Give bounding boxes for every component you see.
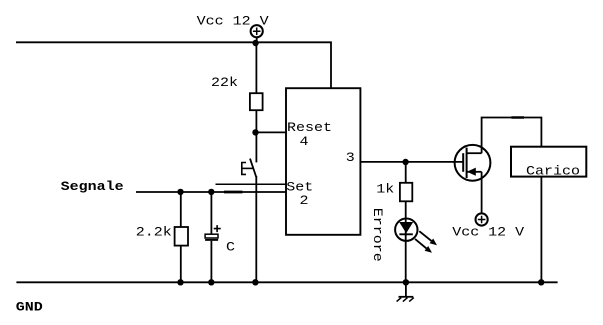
svg-text:3: 3 bbox=[346, 151, 355, 166]
wire output node to R3 bbox=[405, 162, 407, 183]
svg-text:2.2k: 2.2k bbox=[136, 225, 172, 240]
resistor R1 22k bbox=[250, 93, 263, 110]
svg-text:Set: Set bbox=[286, 181, 313, 196]
node junction rail C bbox=[208, 279, 214, 285]
svg-text:1k: 1k bbox=[376, 182, 394, 197]
wire Segnale node to capacitor bbox=[210, 192, 212, 234]
wire Q1 drain to Carico bbox=[482, 118, 542, 154]
wire Q1 source down bbox=[481, 172, 483, 214]
LED light arrow 2 bbox=[415, 239, 432, 253]
svg-text:4: 4 bbox=[300, 135, 309, 150]
wire overlap thick segment top bbox=[512, 116, 525, 119]
wire R3 to LED bbox=[405, 201, 407, 218]
pushbutton switch S1 bbox=[242, 159, 257, 178]
node junction Segnale C bbox=[208, 189, 214, 195]
wire Carico to ground rail bbox=[540, 177, 542, 283]
LED D1 bbox=[395, 218, 417, 241]
wire R1 to reset node bbox=[255, 110, 257, 162]
power symbol Vcc (top) bbox=[251, 25, 263, 42]
power symbol Vcc (bottom) bbox=[476, 213, 488, 225]
svg-text:2: 2 bbox=[300, 194, 309, 209]
capacitor C1 plus sign bbox=[214, 225, 221, 232]
svg-text:C: C bbox=[226, 241, 235, 256]
IC U1 box bbox=[286, 88, 360, 235]
wire LED to ground rail bbox=[405, 241, 407, 282]
svg-text:Vcc 12 V: Vcc 12 V bbox=[197, 15, 270, 30]
svg-text:Reset: Reset bbox=[287, 121, 332, 136]
svg-text:22k: 22k bbox=[211, 76, 238, 91]
node junction rail LED ground bbox=[403, 279, 409, 285]
node junction reset bbox=[252, 129, 258, 135]
wire bottom ground rail bbox=[16, 281, 557, 283]
svg-text:Carico: Carico bbox=[526, 165, 580, 180]
wire overlap thick segment bbox=[224, 191, 243, 194]
capacitor C1 bottom plate bbox=[205, 239, 218, 241]
svg-text:Segnale: Segnale bbox=[61, 180, 124, 195]
wire switch to ground rail bbox=[255, 176, 257, 282]
node junction rail switch bbox=[252, 279, 258, 285]
wire top rail Vcc bbox=[16, 42, 331, 88]
wire Segnale to IC pin 2 bbox=[136, 191, 286, 193]
node junction rail R2 bbox=[177, 279, 183, 285]
wire Segnale node to R2 bbox=[180, 192, 182, 227]
wire capacitor to ground rail bbox=[210, 241, 212, 282]
svg-text:GND: GND bbox=[16, 300, 43, 315]
wire Vcc to resistor R1 bbox=[255, 43, 257, 93]
node junction top Vcc bbox=[252, 40, 258, 46]
node junction rail Carico bbox=[538, 279, 544, 285]
resistor R3 1k bbox=[400, 183, 412, 202]
wire R2 to ground rail bbox=[180, 246, 182, 283]
load box Carico bbox=[511, 147, 586, 177]
node junction Segnale R2 bbox=[177, 189, 183, 195]
ground symbol earth bbox=[397, 282, 414, 301]
resistor R2 2.2k bbox=[175, 227, 188, 246]
node junction output bbox=[402, 159, 408, 165]
transistor Q1 MOSFET bbox=[455, 145, 491, 181]
wire IC pin 3 output bbox=[360, 161, 463, 163]
wire segment stub above Segnale bbox=[216, 183, 287, 185]
wire reset node to IC pin 4 bbox=[256, 131, 287, 133]
svg-text:Vcc 12 V: Vcc 12 V bbox=[452, 226, 525, 241]
LED light arrow 1 bbox=[419, 231, 437, 245]
svg-text:Errore: Errore bbox=[370, 208, 385, 262]
capacitor C1 top plate bbox=[205, 234, 218, 238]
